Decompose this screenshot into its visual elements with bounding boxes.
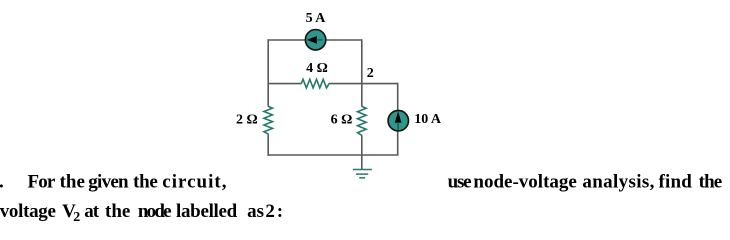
question text line 1 right bbox=[448, 172, 722, 193]
question text line 1 left bbox=[0, 172, 227, 193]
current source I1 5A circle bbox=[305, 30, 325, 50]
svg-text:.: . bbox=[0, 172, 4, 193]
wire middle horizontal right of 4-ohm to 10A branch bbox=[329, 83, 398, 85]
resistor 2 ohm bbox=[264, 106, 273, 133]
wire ground stub bbox=[361, 155, 363, 169]
wire left branch lower bbox=[267, 134, 269, 156]
svg-text:5 A: 5 A bbox=[306, 11, 327, 26]
current source I2 arrow (up) bbox=[395, 111, 402, 130]
wire top from node1 area through 5A source bbox=[268, 39, 362, 41]
current source I1 arrow (left) bbox=[307, 36, 323, 44]
wire middle branch lower bbox=[361, 135, 363, 155]
svg-text:4 Ω: 4 Ω bbox=[306, 61, 328, 76]
label 2 ohm bbox=[236, 112, 258, 127]
svg-text:2: 2 bbox=[367, 66, 374, 81]
svg-text:usenode-voltageanalysis,findth: usenode-voltageanalysis,findthe bbox=[448, 172, 722, 193]
label 5 A bbox=[306, 11, 327, 26]
wire bottom bbox=[267, 154, 398, 156]
svg-text:Forthegiventhecircuit,: Forthegiventhecircuit, bbox=[28, 172, 228, 193]
question text line 2 bbox=[0, 201, 283, 225]
wire right branch vertical with 10A source bbox=[397, 83, 399, 155]
resistor 4 ohm bbox=[301, 79, 329, 88]
ground bbox=[353, 170, 372, 178]
current source I2 10A circle bbox=[388, 111, 408, 131]
label 4 ohm bbox=[306, 61, 328, 76]
wire middle branch from top corner down through node 2 to 6-ohm bbox=[361, 39, 363, 106]
wire left branch upper bbox=[267, 39, 269, 106]
label 10 A bbox=[414, 112, 442, 127]
svg-text:voltageV2atthenodelabelledas2:: voltageV2atthenodelabelledas2: bbox=[0, 201, 283, 225]
node 2 label bbox=[367, 66, 374, 81]
resistor 6 ohm bbox=[358, 106, 367, 135]
svg-text:2 Ω: 2 Ω bbox=[236, 112, 258, 127]
svg-text:10 A: 10 A bbox=[414, 112, 442, 127]
wire middle horizontal left of 4-ohm bbox=[268, 83, 301, 85]
svg-text:6 Ω: 6 Ω bbox=[331, 112, 353, 127]
label 6 ohm bbox=[331, 112, 353, 127]
